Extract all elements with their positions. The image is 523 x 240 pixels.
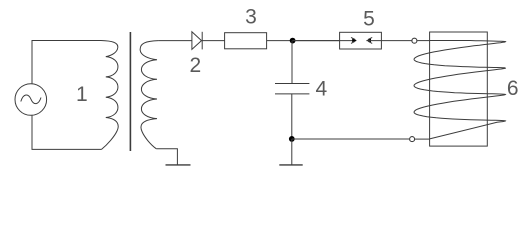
box of element 5 [340, 32, 382, 49]
box of coil 6 [430, 32, 488, 146]
coil L6 (solenoid winding) [414, 41, 506, 139]
resistor R3 [225, 33, 267, 49]
svg-text:4: 4 [316, 77, 328, 100]
svg-text:1: 1 [76, 83, 88, 106]
node B (junction dot) [289, 136, 295, 142]
wire: diode to resistor [202, 40, 224, 42]
node A (junction dot) [290, 38, 296, 44]
terminal (bottom, open circle) [410, 137, 415, 142]
arrow right (inside element 5) [351, 37, 357, 43]
transformer secondary winding [140, 41, 158, 149]
svg-text:2: 2 [189, 54, 201, 77]
ground (capacitor) [279, 164, 302, 166]
wire: resistor to node A [267, 40, 340, 42]
transformer core [129, 32, 131, 151]
wire: node B to ground [291, 139, 293, 165]
diode VD2 [192, 32, 202, 50]
transformer primary winding [101, 41, 118, 150]
wire: capacitor to node B [291, 94, 293, 139]
wire: node A to box 5 [292, 40, 356, 42]
ground (transformer secondary) [166, 164, 191, 166]
wire: element 5 to top terminal [366, 40, 411, 42]
wire: AC source bottom to bottom rail [32, 115, 102, 149]
arrow left (inside element 5) [366, 37, 372, 43]
wire: top terminal into coil box [417, 40, 429, 42]
wire: node B to bottom terminal [292, 138, 410, 140]
terminal (top, open circle) [412, 38, 417, 43]
AC source G1 [15, 84, 47, 116]
svg-text:3: 3 [245, 6, 257, 29]
wire: secondary top to diode [158, 40, 192, 42]
svg-text:5: 5 [363, 7, 375, 30]
wire: AC source top to top rail [32, 41, 101, 84]
wire: bottom terminal into coil box [415, 138, 430, 140]
wire: secondary bottom to ground [156, 149, 177, 165]
wire: node A down to capacitor [291, 41, 293, 84]
svg-text:6: 6 [507, 77, 519, 100]
capacitor C4 [275, 84, 309, 94]
